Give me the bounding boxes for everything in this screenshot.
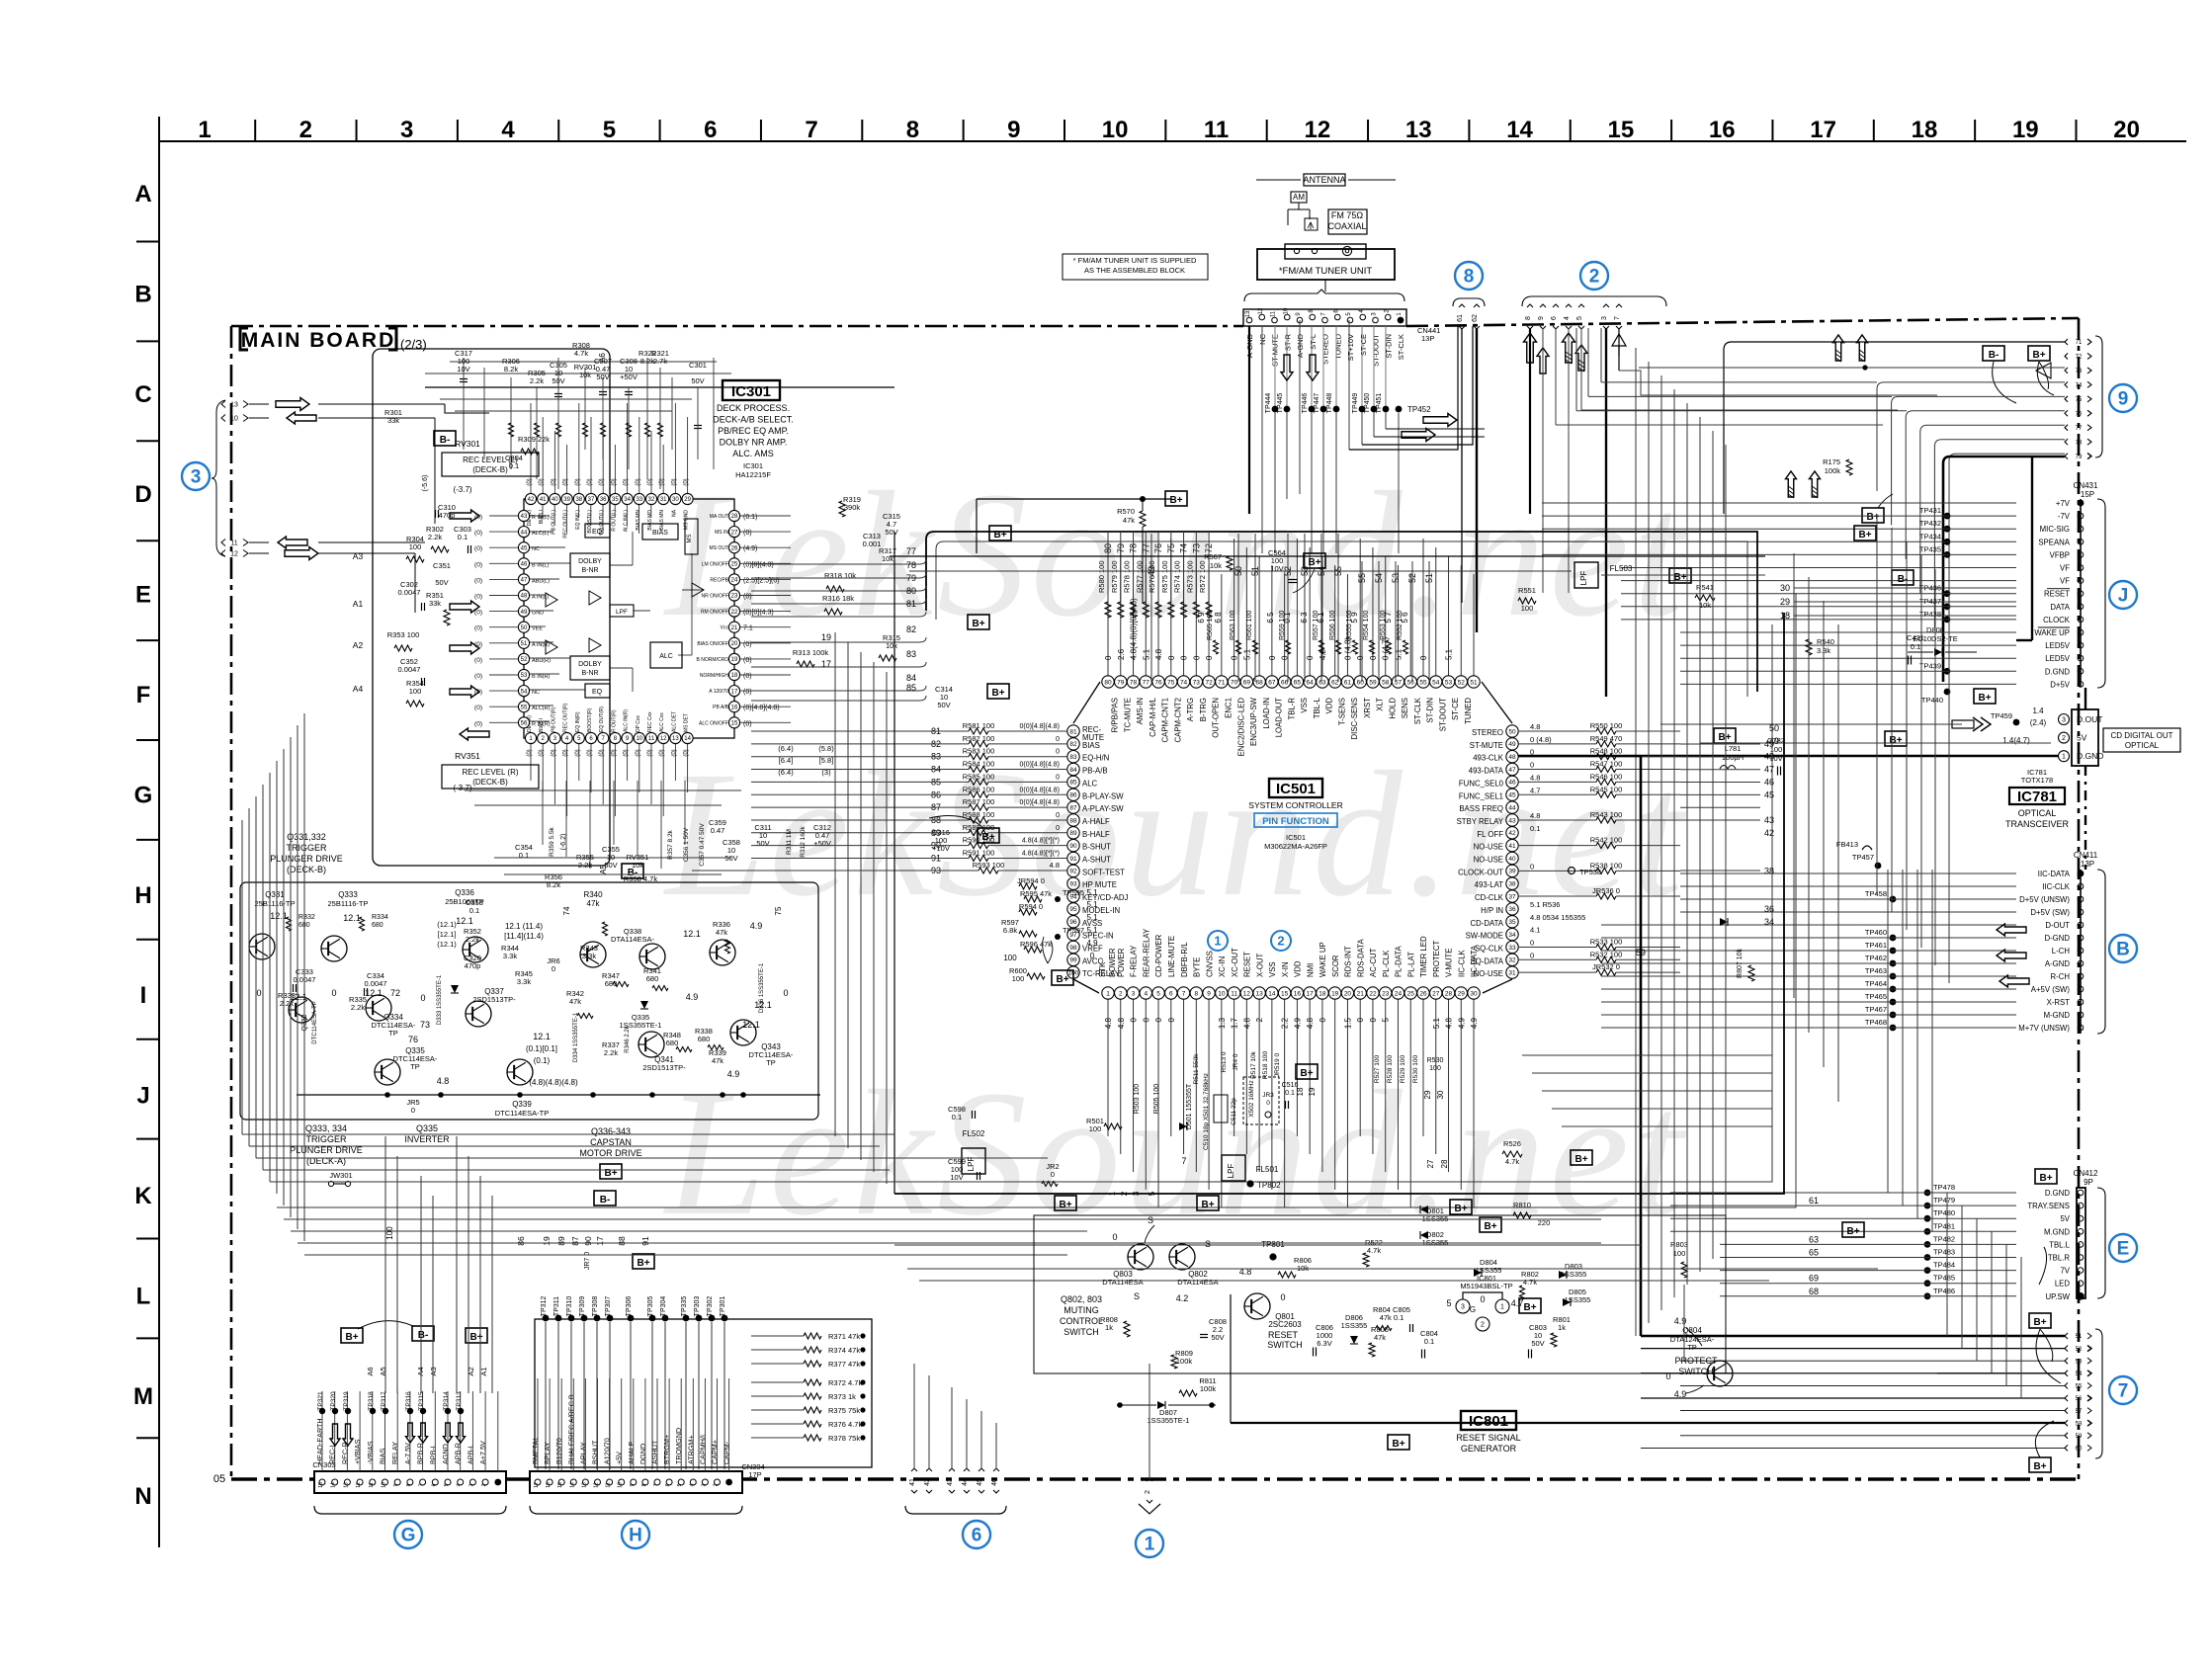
svg-text:20: 20 [731, 641, 738, 647]
svg-text:+50V: +50V [620, 373, 638, 381]
svg-text:B-NR: B-NR [581, 670, 598, 677]
svg-text:43: 43 [521, 514, 528, 520]
wires ic301 bottom to caps [542, 781, 544, 845]
svg-text:D.GND: D.GND [2077, 751, 2103, 761]
connector CN441 [1243, 309, 1406, 326]
svg-text:R549 470: R549 470 [1590, 734, 1623, 743]
svg-text:TP431: TP431 [1919, 506, 1941, 515]
svg-text:Vcc: Vcc [721, 625, 729, 631]
svg-text:IC301: IC301 [743, 461, 763, 470]
transistor Q803 muting [1128, 1244, 1153, 1270]
svg-text:D501 155355T: D501 155355T [1186, 1083, 1193, 1129]
svg-text:JR532 0: JR532 0 [1592, 962, 1620, 971]
svg-text:PROTECT: PROTECT [1432, 941, 1441, 977]
svg-text:1SS355: 1SS355 [1476, 1266, 1502, 1275]
svg-text:B+: B+ [981, 832, 994, 843]
svg-text:REC OUT(L): REC OUT(L) [563, 510, 569, 539]
svg-text:14: 14 [569, 1482, 575, 1488]
wires under circled 2 [1529, 328, 1531, 514]
svg-text:8: 8 [641, 1483, 647, 1486]
svg-text:MS DET: MS DET [684, 713, 690, 732]
svg-text:STBY RELAY: STBY RELAY [1457, 817, 1504, 826]
svg-text:(0.1)[0.1]: (0.1)[0.1] [526, 1044, 557, 1053]
svg-text:50: 50 [1508, 728, 1516, 735]
svg-text:48: 48 [1764, 752, 1774, 762]
svg-text:C351: C351 [433, 561, 451, 570]
EQ box 1 [585, 524, 610, 538]
svg-text:L: L [136, 1283, 151, 1309]
svg-text:B+: B+ [1484, 1221, 1496, 1232]
svg-text:12.1: 12.1 [456, 916, 473, 926]
svg-text:B+: B+ [1300, 1068, 1313, 1079]
svg-text:4.9: 4.9 [1674, 1389, 1687, 1399]
svg-text:TP448: TP448 [1326, 393, 1333, 414]
svg-text:0: 0 [1369, 1017, 1378, 1022]
svg-text:68: 68 [1809, 1287, 1819, 1296]
svg-text:TP: TP [388, 1029, 398, 1038]
svg-text:I: I [140, 982, 147, 1009]
svg-text:FUNC_SEL1: FUNC_SEL1 [1459, 791, 1503, 800]
svg-text:B+: B+ [2033, 1317, 2046, 1328]
svg-text:20: 20 [2113, 117, 2140, 143]
D801 D802 R810 [1420, 1205, 1428, 1213]
svg-text:[5.8]: [5.8] [819, 756, 834, 765]
svg-text:DOLBY: DOLBY [578, 661, 602, 668]
svg-text:TP303: TP303 [694, 1296, 701, 1317]
svg-text:L-CH: L-CH [2052, 947, 2070, 956]
svg-text:37: 37 [588, 497, 595, 503]
D804 R802 D803 D805 [1474, 1269, 1482, 1277]
svg-text:STK-: STK- [1098, 959, 1107, 977]
svg-text:R373 1k: R373 1k [828, 1392, 856, 1401]
IC501 top pin row [1107, 539, 1109, 676]
svg-text:13: 13 [581, 1482, 587, 1488]
svg-text:19: 19 [2012, 117, 2039, 143]
svg-text:1k: 1k [1558, 1323, 1566, 1332]
svg-text:M: M [133, 1383, 153, 1410]
svg-text:(0): (0) [474, 594, 482, 601]
svg-text:RDS-DATA: RDS-DATA [1356, 939, 1365, 977]
svg-text:33: 33 [1508, 945, 1516, 952]
double chevron arrow [1973, 717, 1983, 731]
svg-text:AGND: AGND [441, 1444, 450, 1464]
svg-text:0: 0 [1104, 655, 1113, 660]
svg-text:6: 6 [704, 117, 717, 143]
svg-text:7: 7 [419, 1483, 425, 1486]
diode sw-mode [1720, 918, 1728, 926]
svg-text:75: 75 [2076, 397, 2083, 403]
svg-text:50V: 50V [1531, 1339, 1544, 1348]
right long verticals group A [1635, 348, 1637, 1336]
svg-text:TP463: TP463 [1865, 966, 1887, 975]
CD digital out label [2103, 728, 2180, 752]
svg-text:LINE-MUTE: LINE-MUTE [1167, 936, 1176, 977]
svg-text:1: 1 [2062, 754, 2066, 761]
svg-text:0: 0 [1530, 938, 1534, 947]
svg-text:680: 680 [646, 974, 659, 983]
svg-text:AC-CUT: AC-CUT [1369, 948, 1378, 977]
svg-text:OPTICAL: OPTICAL [2125, 741, 2160, 750]
svg-text:R528 100: R528 100 [1387, 1055, 1394, 1084]
svg-text:TP310: TP310 [566, 1296, 573, 1317]
svg-text:(0): (0) [671, 478, 677, 485]
TP802 [1246, 1180, 1253, 1187]
svg-text:52: 52 [1458, 679, 1466, 686]
svg-text:31: 31 [660, 497, 667, 503]
svg-text:R551: R551 [1518, 586, 1536, 595]
svg-text:F: F [136, 682, 151, 708]
svg-text:TP597: TP597 [1063, 926, 1084, 935]
rail bottom q area [297, 1094, 820, 1096]
svg-text:2.2k: 2.2k [578, 861, 592, 870]
svg-text:80: 80 [906, 586, 916, 596]
svg-text:44: 44 [962, 1478, 969, 1486]
svg-text:OPTICAL: OPTICAL [2018, 808, 2057, 818]
svg-text:50V: 50V [885, 528, 897, 537]
svg-text:D.OUT: D.OUT [2077, 714, 2102, 724]
svg-text:4.8: 4.8 [1050, 861, 1060, 870]
svg-text:R532 100: R532 100 [1590, 950, 1623, 958]
svg-text:R505 100: R505 100 [1153, 1084, 1160, 1114]
svg-text:0.1: 0.1 [1285, 1090, 1295, 1097]
svg-text:29: 29 [684, 497, 691, 503]
svg-text:8.2k: 8.2k [504, 365, 518, 374]
svg-text:(0): (0) [599, 749, 605, 756]
svg-text:C356 1 50V: C356 1 50V [683, 827, 690, 862]
svg-text:R533 100: R533 100 [1590, 937, 1623, 946]
R526 [1502, 1151, 1522, 1157]
dolby b-nr bottom [570, 656, 610, 680]
svg-text:R503 100: R503 100 [1134, 1084, 1141, 1114]
svg-text:D+5V (UNSW): D+5V (UNSW) [2019, 895, 2070, 904]
svg-text:(0): (0) [474, 577, 482, 584]
blue circled E [2109, 1234, 2137, 1262]
svg-text:6: 6 [431, 1483, 437, 1486]
svg-text:NC: NC [532, 690, 540, 696]
svg-text:V-MUTE: V-MUTE [1445, 949, 1454, 977]
svg-text:8: 8 [906, 117, 919, 143]
updown arrows cn303 [330, 1424, 340, 1446]
svg-text:L781: L781 [1725, 744, 1742, 753]
svg-text:78: 78 [1130, 679, 1138, 686]
svg-text:R359 5.5k: R359 5.5k [549, 826, 555, 856]
svg-text:13P: 13P [1421, 334, 1434, 343]
svg-text:0: 0 [1192, 655, 1201, 660]
svg-text:10V: 10V [950, 1173, 963, 1182]
svg-text:AMS-IN: AMS-IN [1136, 698, 1145, 724]
svg-text:16: 16 [1709, 117, 1736, 143]
svg-text:A-7.5V: A-7.5V [403, 1443, 412, 1464]
svg-text:12.1: 12.1 [742, 1020, 760, 1030]
wire 93 long [692, 870, 978, 872]
svg-text:38: 38 [575, 497, 582, 503]
svg-text:NA: NA [671, 509, 677, 517]
svg-text:16: 16 [731, 705, 738, 710]
svg-text:TP468: TP468 [1865, 1018, 1887, 1027]
svg-text:95: 95 [1069, 906, 1077, 913]
svg-text:47k: 47k [712, 1056, 723, 1065]
svg-text:Q331: Q331 [265, 890, 285, 899]
svg-text:0: 0 [1154, 1017, 1163, 1022]
svg-text:R OUT(L): R OUT(L) [611, 510, 617, 532]
transistor Q801 reset switch [1244, 1293, 1270, 1319]
svg-text:5.1 R536: 5.1 R536 [1530, 900, 1560, 909]
svg-text:A4: A4 [353, 684, 364, 694]
svg-text:34: 34 [1764, 917, 1774, 927]
svg-text:RELAY: RELAY [390, 1442, 399, 1464]
svg-text:A+7.5V: A+7.5V [478, 1441, 487, 1464]
svg-text:R574 100: R574 100 [1173, 560, 1182, 593]
svg-text:H: H [134, 882, 151, 909]
svg-text:(0): (0) [539, 749, 545, 756]
svg-text:TBL-L: TBL-L [1313, 697, 1321, 718]
svg-text:10: 10 [1218, 990, 1226, 997]
connector CN304 [530, 1471, 742, 1493]
svg-text:TP451: TP451 [1376, 393, 1383, 414]
svg-text:(0): (0) [474, 673, 482, 680]
svg-text:54: 54 [521, 689, 528, 695]
svg-text:47k 0.1: 47k 0.1 [1380, 1313, 1404, 1322]
svg-text:REC Cxx: REC Cxx [647, 711, 653, 732]
svg-text:(0): (0) [684, 478, 690, 485]
svg-text:36: 36 [1764, 904, 1774, 914]
svg-text:5.1: 5.1 [1086, 913, 1098, 922]
svg-text:D-GND: D-GND [2044, 934, 2070, 943]
svg-text:S: S [1134, 1291, 1140, 1301]
svg-text:TP595: TP595 [1063, 888, 1084, 897]
tuner corner wires [1349, 326, 1458, 450]
svg-text:LED5V: LED5V [2045, 641, 2071, 650]
svg-text:TP: TP [766, 1058, 776, 1067]
svg-text:14: 14 [331, 1482, 337, 1488]
svg-text:5 6: 5 6 [1401, 612, 1409, 623]
D807 [1157, 1401, 1165, 1409]
svg-text:17: 17 [534, 1482, 540, 1488]
svg-text:Q331,332: Q331,332 [287, 832, 326, 842]
svg-text:RM ON/OFF: RM ON/OFF [701, 610, 728, 616]
svg-text:88: 88 [617, 1236, 627, 1246]
svg-text:45: 45 [1764, 789, 1774, 799]
svg-text:DISC-SENS: DISC-SENS [1350, 698, 1359, 739]
D501 [1179, 1122, 1187, 1130]
svg-text:EQ IN(L): EQ IN(L) [575, 510, 581, 530]
svg-text:7.1: 7.1 [743, 625, 753, 632]
R175 [1846, 459, 1852, 475]
svg-text:77: 77 [2076, 426, 2083, 432]
svg-text:3: 3 [1132, 990, 1136, 997]
svg-text:CAPMH/L: CAPMH/L [698, 1433, 707, 1464]
svg-text:55: 55 [2076, 1384, 2083, 1390]
svg-text:39: 39 [1508, 869, 1516, 875]
svg-text:3.3k: 3.3k [582, 952, 596, 960]
svg-text:IC801: IC801 [1469, 1413, 1508, 1430]
svg-text:19: 19 [1331, 990, 1339, 997]
svg-text:61: 61 [1344, 679, 1352, 686]
dolby b-nr top [570, 553, 610, 577]
svg-text:50V: 50V [691, 376, 704, 385]
svg-text:ALC: ALC [1082, 779, 1098, 788]
svg-text:85: 85 [906, 683, 916, 693]
svg-text:BOOST(R): BOOST(R) [587, 707, 593, 732]
svg-text:(0): (0) [474, 625, 482, 632]
svg-text:54: 54 [1432, 679, 1440, 686]
svg-text:R810: R810 [1513, 1201, 1531, 1209]
transistor area outer box [240, 882, 818, 1120]
svg-text:Q335: Q335 [416, 1123, 438, 1133]
svg-text:4.8: 4.8 [1530, 773, 1540, 782]
svg-text:2: 2 [481, 1483, 487, 1486]
svg-text:(0): (0) [636, 749, 641, 756]
svg-text:43: 43 [1764, 815, 1774, 825]
svg-text:47: 47 [1508, 767, 1516, 774]
top bus rails [890, 555, 1765, 557]
svg-text:VSS: VSS [1300, 698, 1309, 713]
svg-text:2: 2 [299, 117, 312, 143]
svg-text:5: 5 [444, 1483, 450, 1486]
transistor Q334 [366, 995, 391, 1021]
svg-text:X-OUT: X-OUT [1255, 954, 1264, 977]
svg-text:90: 90 [1069, 843, 1077, 850]
svg-text:2.6: 2.6 [1117, 648, 1126, 660]
svg-text:B+: B+ [1523, 1302, 1536, 1313]
svg-text:RV301: RV301 [455, 439, 480, 449]
svg-text:11: 11 [1204, 117, 1229, 143]
svg-text:(0): (0) [647, 478, 653, 485]
svg-text:TP315: TP315 [418, 1391, 425, 1411]
svg-text:TOTX178: TOTX178 [2021, 776, 2053, 785]
svg-text:84: 84 [906, 673, 916, 683]
svg-text:SWITCH: SWITCH [1267, 1340, 1303, 1350]
svg-text:FM 75Ω: FM 75Ω [1331, 210, 1364, 220]
arrow to pin 72 [2036, 363, 2051, 378]
svg-text:12: 12 [594, 1482, 600, 1488]
svg-text:493-LAT: 493-LAT [1475, 880, 1504, 889]
svg-text:TP319: TP319 [343, 1391, 350, 1411]
svg-text:CD DIGITAL OUT: CD DIGITAL OUT [2110, 731, 2172, 740]
svg-text:4.9: 4.9 [1293, 1017, 1302, 1029]
svg-text:R548 100: R548 100 [1590, 747, 1623, 756]
amps triangles [546, 593, 557, 607]
svg-text:MS: MS [687, 535, 693, 543]
svg-text:47k: 47k [1123, 516, 1135, 525]
svg-text:56: 56 [2076, 1396, 2083, 1402]
svg-text:63: 63 [1809, 1234, 1819, 1244]
svg-text:11: 11 [230, 540, 237, 547]
svg-text:R529 100: R529 100 [1400, 1055, 1406, 1084]
brace H [530, 1506, 742, 1514]
svg-text:B+: B+ [1392, 1439, 1404, 1450]
svg-text:ALC. AMS: ALC. AMS [732, 449, 774, 458]
svg-text:(0): (0) [743, 689, 752, 696]
enclosing wire frames [926, 532, 1757, 692]
svg-text:B+: B+ [2032, 350, 2045, 361]
svg-text:TP308: TP308 [592, 1296, 599, 1317]
svg-text:0: 0 [1480, 1294, 1485, 1304]
svg-text:15: 15 [1608, 117, 1635, 143]
IC501 chip body outline [1073, 682, 1512, 993]
svg-text:R376 4.7k: R376 4.7k [828, 1420, 862, 1429]
svg-text:18: 18 [1296, 1087, 1305, 1096]
svg-text:6 9: 6 9 [1197, 612, 1206, 623]
svg-text:C510 18p X501 32.768kHz: C510 18p X501 32.768kHz [1203, 1073, 1210, 1150]
nest verticals down to cn431 [1876, 514, 1878, 894]
svg-text:SYSTEM CONTROLLER: SYSTEM CONTROLLER [1248, 800, 1342, 810]
IC301 top pins [530, 403, 532, 493]
B- label left [434, 431, 456, 446]
svg-text:(0): (0) [671, 749, 677, 756]
svg-text:3: 3 [2062, 717, 2066, 724]
svg-text:6: 6 [1169, 990, 1173, 997]
svg-text:R575 100: R575 100 [1160, 560, 1169, 593]
IC301 right pins [728, 510, 739, 521]
svg-text:FL501: FL501 [1256, 1165, 1279, 1174]
svg-text:(2.4): (2.4) [2030, 718, 2047, 727]
svg-text:0.0047: 0.0047 [398, 588, 421, 597]
svg-text:73: 73 [420, 1020, 430, 1030]
svg-text:R545 100: R545 100 [1590, 785, 1623, 793]
svg-text:AS THE ASSEMBLED BLOCK: AS THE ASSEMBLED BLOCK [1084, 266, 1185, 275]
svg-text:ALC(R): ALC(R) [532, 706, 551, 711]
svg-text:LED5V: LED5V [2045, 654, 2071, 663]
svg-text:ENC2/DISC-LED: ENC2/DISC-LED [1236, 698, 1245, 757]
svg-text:4.1: 4.1 [1530, 926, 1540, 935]
svg-text:TP434: TP434 [1919, 532, 1941, 540]
svg-text:50V: 50V [724, 854, 737, 863]
svg-text:17: 17 [1307, 990, 1315, 997]
svg-text:NMI: NMI [1306, 963, 1315, 977]
svg-text:7: 7 [1181, 1156, 1186, 1166]
svg-text:MS OUT: MS OUT [710, 545, 728, 551]
svg-text:ST-L: ST-L [1309, 334, 1318, 350]
svg-text:0: 0 [1056, 774, 1060, 781]
svg-text:6 5: 6 5 [1266, 612, 1275, 623]
svg-text:37: 37 [1508, 893, 1516, 900]
svg-text:43: 43 [1508, 817, 1516, 824]
svg-text:B+: B+ [1858, 530, 1871, 540]
svg-text:2.2k: 2.2k [428, 533, 442, 541]
svg-text:19: 19 [731, 657, 738, 663]
svg-text:B+: B+ [2039, 1173, 2052, 1184]
svg-text:0: 0 [552, 964, 555, 973]
svg-text:R IN(R): R IN(R) [532, 721, 551, 727]
svg-text:35: 35 [612, 497, 619, 503]
svg-text:0.1: 0.1 [1911, 642, 1920, 651]
svg-text:DECK PROCESS.: DECK PROCESS. [717, 403, 790, 413]
svg-text:BIAS MN: BIAS MN [659, 510, 665, 531]
svg-text:100: 100 [1003, 954, 1017, 962]
svg-text:9: 9 [630, 1483, 636, 1486]
svg-text:4.2: 4.2 [1176, 1293, 1189, 1303]
svg-text:15P: 15P [2081, 490, 2094, 499]
svg-text:13P: 13P [2081, 860, 2094, 869]
svg-text:36: 36 [600, 497, 607, 503]
svg-text:10V: 10V [1270, 564, 1283, 573]
svg-text:B120/70: B120/70 [554, 1438, 563, 1464]
svg-text:SQ-CLK: SQ-CLK [1475, 944, 1504, 953]
svg-text:TP479: TP479 [1933, 1196, 1955, 1205]
svg-text:B+: B+ [1454, 1204, 1467, 1214]
svg-text:R527 100: R527 100 [1374, 1055, 1381, 1084]
svg-text:4.9: 4.9 [750, 921, 763, 931]
svg-text:D+5V: D+5V [2050, 680, 2071, 689]
svg-text:B NORM/CRO: B NORM/CRO [697, 657, 729, 663]
svg-text:TP481: TP481 [1933, 1221, 1955, 1230]
svg-text:BYTE: BYTE [1193, 957, 1202, 977]
svg-text:0: 0 [1319, 1017, 1327, 1022]
svg-text:65: 65 [1809, 1248, 1819, 1258]
svg-text:B-: B- [440, 435, 451, 446]
svg-text:0: 0 [1056, 736, 1060, 743]
